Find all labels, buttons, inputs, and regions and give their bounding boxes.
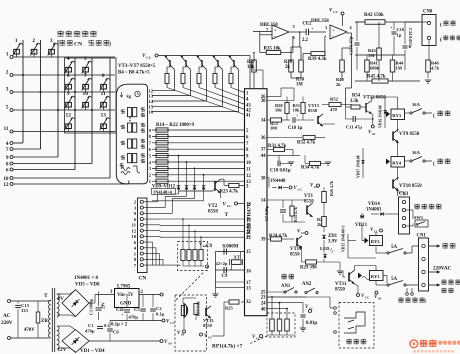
svg-text:2k: 2k [285, 65, 290, 70]
svg-text:8: 8 [102, 73, 105, 79]
svg-text:11: 11 [4, 126, 9, 132]
svg-text:24: 24 [261, 301, 266, 306]
svg-text:VT1: VT1 [304, 194, 314, 199]
svg-text:21: 21 [246, 230, 251, 235]
svg-text:2k: 2k [336, 82, 341, 87]
svg-text:VT12 8050: VT12 8050 [363, 96, 386, 101]
svg-text:C18 0.01μ: C18 0.01μ [270, 169, 291, 174]
svg-text:VT11: VT11 [335, 282, 347, 287]
svg-text:12: 12 [246, 174, 251, 179]
svg-text:10: 10 [83, 91, 89, 97]
svg-text:RY2: RY2 [371, 239, 380, 244]
svg-text:(: ( [440, 36, 442, 43]
svg-text:CN0: CN0 [423, 10, 433, 15]
svg-text:8550: 8550 [208, 210, 218, 215]
svg-text:39: 39 [261, 238, 266, 243]
svg-text:36: 36 [261, 136, 266, 141]
svg-text:0.1μ: 0.1μ [156, 312, 165, 317]
svg-text:16: 16 [149, 110, 154, 115]
svg-text:2: 2 [6, 70, 9, 76]
svg-text:16A: 16A [412, 102, 421, 107]
svg-text:32: 32 [246, 300, 251, 305]
svg-text:16: 16 [246, 270, 251, 275]
svg-text:8550: 8550 [290, 253, 300, 258]
svg-text:VT9 8550: VT9 8550 [399, 132, 420, 137]
svg-text:R39 4.3k: R39 4.3k [308, 57, 327, 62]
svg-text:CC: CC [365, 296, 369, 300]
svg-text:R29 390: R29 390 [300, 266, 317, 271]
svg-text:LED: LED [320, 246, 330, 251]
svg-text:8550: 8550 [304, 200, 314, 205]
svg-text:C3 1000μ: C3 1000μ [89, 298, 94, 315]
svg-text:12: 12 [131, 228, 136, 233]
svg-text:ZD1: ZD1 [328, 234, 338, 239]
svg-text:CC: CC [208, 336, 212, 340]
svg-text:RY4: RY4 [392, 160, 401, 165]
svg-text:9: 9 [6, 155, 9, 161]
svg-text:SS: SS [168, 342, 172, 346]
svg-text:10k: 10k [275, 108, 282, 113]
svg-text:(: ( [433, 160, 435, 167]
svg-text:6: 6 [67, 73, 70, 79]
svg-text:14: 14 [261, 199, 266, 204]
svg-text:25V: 25V [101, 302, 106, 309]
svg-text:R33 4.7k: R33 4.7k [293, 206, 298, 222]
svg-text:2: 2 [149, 173, 151, 178]
svg-text:13: 13 [149, 94, 154, 99]
svg-text:5A: 5A [391, 277, 398, 282]
svg-text:10: 10 [246, 161, 251, 166]
svg-text:C16: C16 [397, 27, 405, 32]
svg-text:R55 3.3k: R55 3.3k [197, 300, 201, 316]
svg-text:1N4001: 1N4001 [366, 208, 382, 213]
svg-text:VD1 ~ VD4: VD1 ~ VD4 [80, 349, 105, 354]
svg-text:8550: 8550 [203, 323, 213, 328]
svg-text:C34 0.033μ: C34 0.033μ [408, 28, 413, 49]
svg-text:220V: 220V [1, 320, 13, 326]
svg-text:41: 41 [246, 114, 251, 119]
svg-text:470V: 470V [24, 328, 35, 333]
svg-text:AC: AC [3, 313, 11, 319]
svg-text:37: 37 [261, 148, 266, 153]
svg-text:38: 38 [261, 176, 266, 181]
svg-text:10k: 10k [293, 108, 300, 113]
svg-text:SS: SS [378, 297, 382, 301]
svg-text:CC: CC [374, 230, 378, 234]
svg-text:14: 14 [149, 99, 154, 104]
svg-text:44: 44 [261, 154, 266, 159]
svg-text:11: 11 [132, 223, 137, 228]
svg-text:RY1: RY1 [371, 274, 380, 279]
svg-text:3.3k: 3.3k [350, 99, 359, 104]
svg-text:VD14: VD14 [368, 202, 380, 207]
svg-text:1: 1 [15, 38, 18, 44]
svg-text:2: 2 [32, 38, 35, 44]
svg-text:VD13: VD13 [355, 223, 367, 228]
svg-text:1: 1 [6, 52, 9, 58]
svg-text:VT14: VT14 [290, 247, 302, 252]
svg-text:CC: CC [256, 337, 260, 341]
svg-text:1M: 1M [396, 66, 403, 71]
svg-text:470: 470 [330, 107, 338, 112]
svg-text:CC: CC [333, 10, 338, 14]
svg-text:13: 13 [246, 287, 251, 292]
svg-text:3.9V: 3.9V [328, 240, 338, 245]
svg-text:470μ: 470μ [85, 329, 95, 334]
svg-text:20: 20 [246, 224, 251, 229]
svg-text:CC: CC [314, 185, 318, 189]
svg-text:RP1(4.7k) ×7: RP1(4.7k) ×7 [212, 343, 243, 350]
svg-text:T: T [44, 293, 48, 299]
svg-text:3: 3 [50, 38, 53, 44]
svg-text:RY3: RY3 [392, 113, 401, 118]
svg-text:22: 22 [246, 236, 251, 241]
svg-text:CN1: CN1 [417, 234, 427, 239]
svg-text:CC: CC [227, 204, 232, 208]
svg-text:SS: SS [181, 333, 185, 337]
svg-text:VD15 1N4148×3: VD15 1N4148×3 [342, 225, 346, 252]
svg-text:AN1: AN1 [281, 284, 291, 289]
svg-text:22×2p: 22×2p [216, 261, 228, 266]
svg-text:VT10 8550: VT10 8550 [399, 184, 422, 189]
svg-text:2k: 2k [317, 222, 322, 227]
svg-text:8550: 8550 [335, 288, 345, 293]
svg-text:ZR: ZR [41, 319, 48, 324]
svg-text:5: 5 [6, 105, 9, 111]
svg-text:CN: CN [139, 276, 147, 282]
svg-text:R14 ~ R22 1000×9: R14 ~ R22 1000×9 [156, 123, 195, 128]
svg-text:8550: 8550 [308, 108, 318, 113]
svg-text:C15 0.47μ: C15 0.47μ [349, 36, 354, 55]
svg-text:0.1μ × 2: 0.1μ × 2 [111, 323, 128, 328]
svg-text:AN2: AN2 [302, 282, 312, 287]
svg-text:6: 6 [6, 168, 9, 174]
svg-text:R54: R54 [352, 94, 361, 99]
svg-text:7: 7 [6, 147, 9, 153]
svg-text:Vin−5V: Vin−5V [117, 293, 134, 298]
svg-text:C11 47μ: C11 47μ [346, 125, 362, 130]
svg-text:C2: C2 [156, 306, 162, 311]
svg-text:VD16 1N4148: VD16 1N4148 [379, 105, 383, 128]
svg-text:R34 4.7k: R34 4.7k [301, 166, 319, 171]
svg-text:C10 1μ: C10 1μ [288, 126, 303, 131]
svg-text:9: 9 [67, 91, 70, 97]
svg-text:18: 18 [246, 203, 251, 208]
svg-text:1M: 1M [296, 83, 303, 88]
svg-text:R52: R52 [330, 97, 339, 102]
svg-text:1M: 1M [368, 53, 375, 58]
svg-text:1N4448: 1N4448 [270, 179, 286, 184]
svg-text:VD07 1N4148: VD07 1N4148 [357, 155, 361, 178]
svg-text:C1: C1 [88, 323, 94, 328]
svg-text:1μ: 1μ [397, 33, 402, 38]
svg-text:8.000M: 8.000M [223, 245, 239, 250]
svg-text:VT3~VT7 8550×5: VT3~VT7 8550×5 [118, 64, 156, 69]
svg-text:30: 30 [261, 99, 266, 104]
svg-text:470μ: 470μ [129, 315, 139, 320]
svg-text:1N4001 × 8: 1N4001 × 8 [74, 276, 98, 281]
svg-text:B4 ~ B8 4.7k×5: B4 ~ B8 4.7k×5 [118, 71, 150, 76]
svg-text:VT2: VT2 [208, 204, 218, 209]
svg-text:DBL358: DBL358 [311, 19, 329, 24]
svg-text:15: 15 [246, 250, 251, 255]
svg-text:): ) [109, 41, 111, 48]
svg-text:GND: GND [120, 302, 132, 307]
svg-text:R26 4.7k: R26 4.7k [329, 180, 334, 196]
svg-text:100: 100 [270, 125, 278, 130]
svg-text:19: 19 [246, 218, 251, 223]
svg-text:5: 5 [84, 56, 87, 62]
svg-text:1: 1 [149, 179, 151, 184]
svg-text:XT: XT [234, 254, 240, 259]
svg-text:SW1: SW1 [414, 215, 423, 220]
svg-text:R23 4.7k: R23 4.7k [220, 190, 239, 195]
svg-text:11: 11 [246, 167, 251, 172]
svg-text:34: 34 [261, 119, 266, 124]
svg-text:C7 0.06μ: C7 0.06μ [264, 205, 269, 221]
svg-text:17: 17 [246, 281, 251, 286]
svg-text:VD5 ~ VD8: VD5 ~ VD8 [75, 283, 100, 288]
svg-text:0.01μ: 0.01μ [306, 321, 317, 326]
svg-text:680k: 680k [370, 66, 380, 71]
svg-text:T: T [225, 212, 229, 218]
svg-text:8V: 8V [58, 296, 65, 302]
svg-text:5A: 5A [391, 245, 398, 250]
svg-text:12: 12 [3, 182, 9, 188]
svg-text:40: 40 [261, 307, 266, 312]
svg-text:CC: CC [203, 244, 207, 248]
svg-text:R25: R25 [225, 306, 233, 311]
svg-text:R42 150k: R42 150k [364, 13, 384, 18]
svg-text:12: 12 [66, 113, 72, 119]
svg-text:16A: 16A [412, 150, 421, 155]
svg-text:CC: CC [298, 188, 302, 192]
svg-text:CC: CC [309, 307, 313, 311]
svg-text:4: 4 [67, 56, 70, 62]
svg-text:C6: C6 [113, 330, 119, 335]
svg-text:3: 3 [6, 87, 9, 93]
svg-text:7: 7 [84, 73, 87, 79]
svg-text:R31 4.7k: R31 4.7k [268, 144, 286, 149]
svg-text:R32 4.7k: R32 4.7k [297, 141, 315, 146]
svg-text:2.2: 2.2 [302, 38, 309, 43]
svg-text:4.7k: 4.7k [431, 66, 440, 71]
svg-text:10k: 10k [247, 65, 255, 70]
svg-text:(: ( [440, 21, 442, 28]
svg-text:CC: CC [146, 56, 151, 60]
svg-text:333: 333 [21, 308, 29, 313]
svg-text:220VAC: 220VAC [433, 266, 452, 272]
svg-text:23: 23 [261, 296, 266, 301]
svg-text:?: ? [424, 299, 427, 305]
svg-text:0.1: 0.1 [104, 323, 109, 328]
svg-text:C9: C9 [222, 274, 228, 279]
svg-text:1N4148×4: 1N4148×4 [153, 189, 173, 194]
svg-text:C5: C5 [134, 307, 140, 312]
svg-text:10: 10 [131, 234, 136, 239]
svg-text:CN: CN [74, 42, 82, 48]
svg-text:13: 13 [101, 113, 107, 119]
svg-text:SS: SS [372, 132, 376, 136]
svg-text:11: 11 [101, 91, 106, 97]
svg-text:(: ( [433, 112, 435, 119]
